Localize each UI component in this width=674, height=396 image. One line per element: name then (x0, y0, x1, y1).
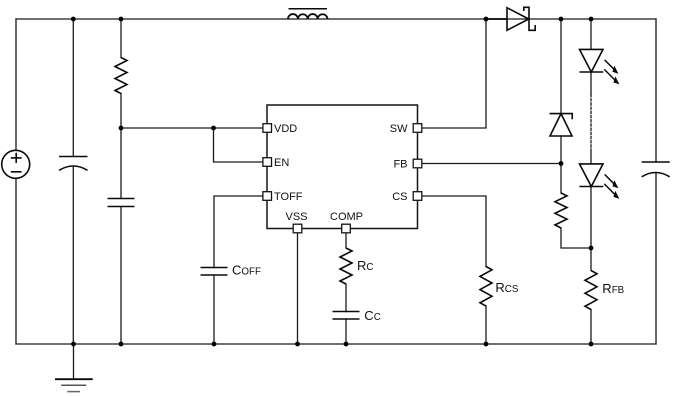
svg-text:CS: CS (392, 191, 407, 203)
svg-text:VDD: VDD (274, 123, 297, 135)
svg-text:FB: FB (393, 158, 407, 170)
svg-text:EN: EN (274, 157, 289, 169)
svg-text:COMP: COMP (330, 211, 363, 223)
svg-text:VSS: VSS (285, 211, 307, 223)
svg-text:TOFF: TOFF (274, 191, 303, 203)
svg-text:SW: SW (390, 123, 408, 135)
